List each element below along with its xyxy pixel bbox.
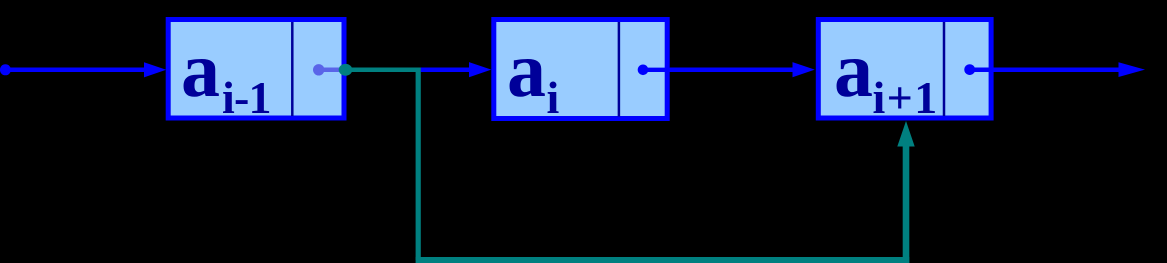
pointer dot in node a_i bbox=[638, 65, 672, 76]
label a_i bbox=[507, 26, 560, 123]
node box a_i+1 bbox=[818, 20, 991, 119]
pointer dot in node a_i+1 bbox=[964, 64, 1121, 75]
svg-text:i-1: i-1 bbox=[222, 72, 271, 123]
svg-text:a: a bbox=[834, 26, 873, 113]
old pointer dot in node a_i-1 bbox=[313, 64, 343, 75]
label a_i+1 bbox=[834, 26, 939, 123]
wire: blue arrow from a_i to a_i+1 bbox=[670, 62, 815, 77]
svg-text:i: i bbox=[547, 72, 560, 123]
label a_i-1 bbox=[181, 26, 271, 123]
node box a_i-1 bbox=[168, 20, 344, 119]
wire: entry arrow from list head into node a_i-1 bbox=[0, 62, 166, 77]
svg-text:a: a bbox=[181, 26, 220, 113]
node box a_i bbox=[494, 20, 667, 119]
wire: old blue arrow from a_i-1 to a_i bbox=[421, 62, 492, 77]
svg-text:i+1: i+1 bbox=[873, 72, 939, 123]
teal junction dot on node a_i-1 border bbox=[339, 64, 353, 76]
svg-text:a: a bbox=[507, 26, 546, 113]
wire: teal redirected pointer path from a_i-1 around to a_i+1 bbox=[345, 68, 915, 263]
wire: exit arrow from a_i+1 to rest of list bbox=[1119, 62, 1146, 77]
